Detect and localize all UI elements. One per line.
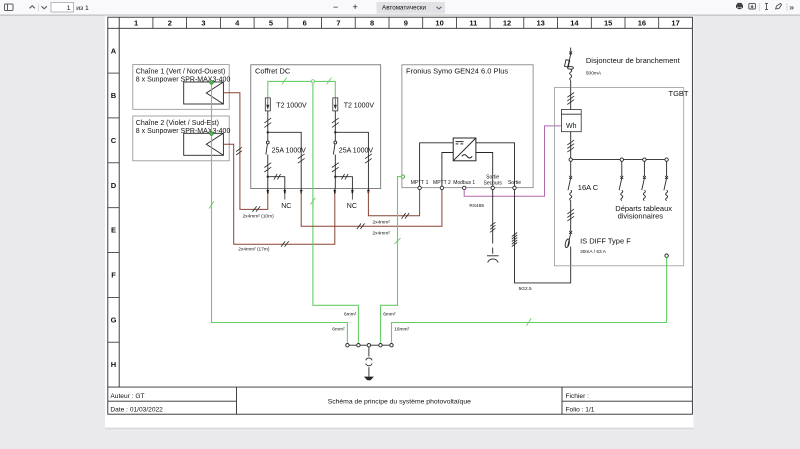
svg-text:5: 5 xyxy=(269,19,273,28)
svg-text:Coffret DC: Coffret DC xyxy=(255,67,291,76)
energy meter Wh xyxy=(561,110,581,132)
cable marks above Wh xyxy=(567,93,574,105)
svg-text:6mm²: 6mm² xyxy=(332,327,345,333)
cable marks below Wh xyxy=(567,140,574,152)
svg-text:16A C: 16A C xyxy=(578,183,599,192)
svg-text:10: 10 xyxy=(435,19,443,28)
node PE panel2 xyxy=(210,132,214,136)
svg-text:F: F xyxy=(111,271,116,280)
svg-text:+: + xyxy=(353,2,358,12)
svg-text:17: 17 xyxy=(671,19,679,28)
enclosure box Chaine 2 xyxy=(133,116,231,161)
cable marks Secours wire xyxy=(490,222,495,232)
wire PV2 DC+ (brown) xyxy=(223,144,334,244)
svg-text:MPTT 2: MPTT 2 xyxy=(433,180,451,186)
socket outlet symbol (secours) xyxy=(487,256,499,263)
svg-text:»: » xyxy=(789,2,794,12)
terminal PE TGBT xyxy=(665,254,668,257)
svg-text:6mm²: 6mm² xyxy=(344,311,357,317)
terminal PE Fronius xyxy=(401,175,404,178)
svg-text:Date : 01/03/2022: Date : 01/03/2022 xyxy=(110,407,163,414)
wire Sortie Secours external xyxy=(492,190,494,254)
svg-text:16mm²: 16mm² xyxy=(394,327,409,333)
svg-text:NC: NC xyxy=(347,203,357,210)
svg-text:Wh: Wh xyxy=(566,123,577,130)
svg-text:TGBT: TGBT xyxy=(669,89,689,98)
wire Wh to bus xyxy=(570,132,572,160)
enclosure box Coffret DC xyxy=(251,65,381,189)
earth bus terminal nodes xyxy=(346,344,394,347)
green slash on TGBT PE xyxy=(526,318,531,325)
cable marks Sortie wire (5 cores) xyxy=(512,233,517,247)
svg-text:8: 8 xyxy=(370,19,374,28)
svg-text:2x4mm²: 2x4mm² xyxy=(373,230,391,236)
svg-text:Schéma de principe du système: Schéma de principe du système photovolta… xyxy=(328,399,471,406)
svg-text:Modbus 1: Modbus 1 xyxy=(453,180,475,186)
svg-text:Disjoncteur de branchement: Disjoncteur de branchement xyxy=(586,56,681,65)
node PE junction Coffret xyxy=(311,80,314,83)
wire MPTT1 internal xyxy=(420,143,454,187)
svg-text:12: 12 xyxy=(503,19,511,28)
wire Modbus RS485 (violet) xyxy=(464,126,561,196)
wire into TGBT xyxy=(570,88,572,110)
wire Sortie Secours internal xyxy=(476,153,493,187)
svg-text:14: 14 xyxy=(570,19,579,28)
svg-text:9: 9 xyxy=(404,19,408,28)
svg-text:Secours: Secours xyxy=(484,180,503,186)
separator xyxy=(758,3,760,11)
wire T2-1 to junction xyxy=(267,111,269,132)
circuit breaker main (disjoncteur de branchement) xyxy=(564,52,573,88)
departure feeder 2 xyxy=(642,158,646,201)
wire branch1 output to MPTT2 (dark red) xyxy=(301,189,442,227)
cable marks on NC link 1 xyxy=(274,174,281,180)
svg-text:16: 16 xyxy=(638,19,646,28)
svg-text:Fronius Symo GEN24 6.0 Plus: Fronius Symo GEN24 6.0 Plus xyxy=(406,67,508,76)
svg-text:MPTT 1: MPTT 1 xyxy=(411,180,429,186)
wire PE from Fronius (green) xyxy=(381,177,402,343)
terminal MPTT 2 xyxy=(440,186,443,189)
page down chevron xyxy=(42,6,47,9)
svg-text:Chaîne 2 (Violet / Sud-Est): Chaîne 2 (Violet / Sud-Est) xyxy=(136,120,219,127)
cable mark on PV1 wire xyxy=(236,147,242,155)
svg-text:3: 3 xyxy=(201,19,205,28)
svg-text:11: 11 xyxy=(469,19,477,28)
schematic frame xyxy=(108,17,693,414)
text select icon xyxy=(765,3,768,9)
cable marks below 16A breaker xyxy=(567,209,574,221)
disconnect switch Q2 25A xyxy=(333,132,373,176)
svg-text:C: C xyxy=(111,136,117,145)
svg-text:−: − xyxy=(333,2,338,12)
svg-text:2x4mm²: 2x4mm² xyxy=(373,220,391,226)
terminal Sortie xyxy=(513,186,516,189)
svg-text:T2 1000V: T2 1000V xyxy=(276,102,307,109)
green slash on chains PE xyxy=(209,201,214,208)
node junction branch2 lower xyxy=(334,176,336,178)
cable marks below Q1 xyxy=(264,163,271,172)
separator xyxy=(786,3,788,11)
save icon xyxy=(749,3,756,9)
wire PE chains to earth bus (green) xyxy=(212,82,348,342)
title block xyxy=(108,387,693,414)
page number input xyxy=(51,2,74,12)
svg-text:E: E xyxy=(111,226,116,235)
svg-text:H: H xyxy=(111,360,116,369)
node junction branch2 upper xyxy=(334,131,336,133)
svg-text:T2 1000V: T2 1000V xyxy=(344,102,375,109)
cable marks MPTT1 wire xyxy=(402,213,410,219)
green slash on Fronius PE xyxy=(395,238,401,244)
terminal Sortie Secours xyxy=(491,186,494,189)
svg-text:15: 15 xyxy=(604,19,612,28)
enclosure box Fronius inverter xyxy=(402,65,533,188)
cable marks MPTT2 wire xyxy=(357,223,365,229)
svg-text:2x4mm² (17m): 2x4mm² (17m) xyxy=(238,247,270,253)
node junction branch1 lower xyxy=(267,176,269,178)
disconnect switch Q1 25A xyxy=(266,132,306,176)
svg-text:Auteur : GT: Auteur : GT xyxy=(110,393,144,400)
svg-text:500mA: 500mA xyxy=(586,71,602,77)
svg-text:divisionnaires: divisionnaires xyxy=(618,211,664,220)
svg-text:6mm²: 6mm² xyxy=(383,311,396,317)
svg-text:5G2.5: 5G2.5 xyxy=(519,286,532,292)
svg-text:1: 1 xyxy=(67,5,71,12)
zoom dropdown xyxy=(377,2,446,14)
earth busbar xyxy=(347,344,391,346)
svg-text:IS DIFF Type F: IS DIFF Type F xyxy=(580,237,631,246)
separator xyxy=(37,4,39,12)
svg-text:7: 7 xyxy=(336,19,340,28)
green slash marks Coffret header xyxy=(282,78,332,205)
pdf page xyxy=(105,16,694,428)
wire branch2 main to terminal xyxy=(334,177,336,189)
draw pen icon xyxy=(776,3,782,8)
svg-text:G: G xyxy=(111,315,117,324)
wire T2-2 to junction xyxy=(334,111,336,132)
svg-text:A: A xyxy=(111,46,117,55)
svg-text:2: 2 xyxy=(168,19,172,28)
cable mark on PV1 wire horizontal xyxy=(253,206,261,212)
PV panel PV2 xyxy=(184,133,224,155)
inverter U1 symbol xyxy=(453,138,476,161)
wire branch1 to NC terminal xyxy=(268,177,285,189)
cable mark on PV2 wire xyxy=(281,241,289,247)
svg-text:NC: NC xyxy=(281,203,291,210)
wire branch1 main to terminal xyxy=(267,177,269,189)
surge arrester T2 no.2 xyxy=(333,98,375,111)
cable marks on NC link 2 xyxy=(341,174,348,180)
wire branch2 parallel right xyxy=(335,132,368,189)
wire branch2 output to MPTT1 (dark red) xyxy=(368,189,419,216)
earth electrode link xyxy=(366,347,372,377)
PV panel PV1 xyxy=(184,82,224,104)
cable marks on branch1 parallel xyxy=(298,154,305,163)
wire NC stub 1 xyxy=(284,193,286,200)
wire distribution bus xyxy=(572,159,666,161)
printer icon xyxy=(736,3,743,9)
wire PE green header in Coffret DC xyxy=(268,81,336,98)
enclosure box TGBT xyxy=(554,88,689,266)
cable marks below T2-2 xyxy=(332,118,339,127)
toolbar xyxy=(0,0,800,16)
svg-text:D: D xyxy=(111,181,117,190)
wire branch2 to NC terminal xyxy=(335,177,352,189)
svg-text:B: B xyxy=(111,91,117,100)
svg-text:Folio : 1/1: Folio : 1/1 xyxy=(566,407,595,414)
cable marks on branch2 parallel xyxy=(365,154,372,163)
departure feeder 1 xyxy=(619,158,623,201)
svg-text:RS485: RS485 xyxy=(469,203,484,209)
svg-text:Fichier :: Fichier : xyxy=(566,393,590,400)
wire MPTT2 internal xyxy=(442,153,453,187)
node junction branch1 upper xyxy=(267,131,269,133)
breaker 16A C xyxy=(568,161,572,222)
RCD IS DIFF Type F xyxy=(564,222,572,262)
ground symbol xyxy=(364,377,374,381)
sidebar toggle icon xyxy=(5,4,14,11)
svg-text:Автоматически: Автоматически xyxy=(382,5,427,12)
wire grid supply top xyxy=(570,48,572,52)
cable marks below T2-1 xyxy=(264,118,271,127)
svg-text:Sortie: Sortie xyxy=(508,180,521,186)
cable marks below Q2 xyxy=(332,163,339,172)
svg-text:2x4mm² (10m): 2x4mm² (10m) xyxy=(243,213,275,219)
page up chevron xyxy=(30,6,35,9)
svg-text:Chaîne 1 (Vert / Nord-Ouest): Chaîne 1 (Vert / Nord-Ouest) xyxy=(136,69,225,76)
wire NC stub 2 xyxy=(351,193,353,200)
svg-text:1: 1 xyxy=(134,19,138,28)
wire PE down from Coffret (green) xyxy=(313,83,359,343)
svg-text:из 1: из 1 xyxy=(76,5,89,12)
wire Sortie AC external xyxy=(515,190,571,283)
wire Sortie internal xyxy=(476,143,515,187)
svg-text:25A 1000V: 25A 1000V xyxy=(272,147,307,154)
svg-text:13: 13 xyxy=(537,19,545,28)
wire PV1 DC+ (brown) xyxy=(223,93,267,210)
svg-text:6: 6 xyxy=(303,19,307,28)
wire branch1 parallel right xyxy=(268,132,301,189)
node bus junction xyxy=(569,158,572,161)
enclosure box Chaine 1 xyxy=(133,65,231,110)
surge arrester T2 no.1 xyxy=(265,98,307,111)
svg-text:30mA / 63 A: 30mA / 63 A xyxy=(580,249,607,255)
wire PE TGBT to earth bus (green) xyxy=(392,257,667,342)
terminal pins on Coffret DC bottom edge xyxy=(266,189,370,194)
node PE panel1 xyxy=(210,81,214,85)
departure feeder 3 xyxy=(664,158,668,201)
terminal Modbus 1 xyxy=(463,186,466,189)
terminal MPTT 1 xyxy=(418,186,421,189)
